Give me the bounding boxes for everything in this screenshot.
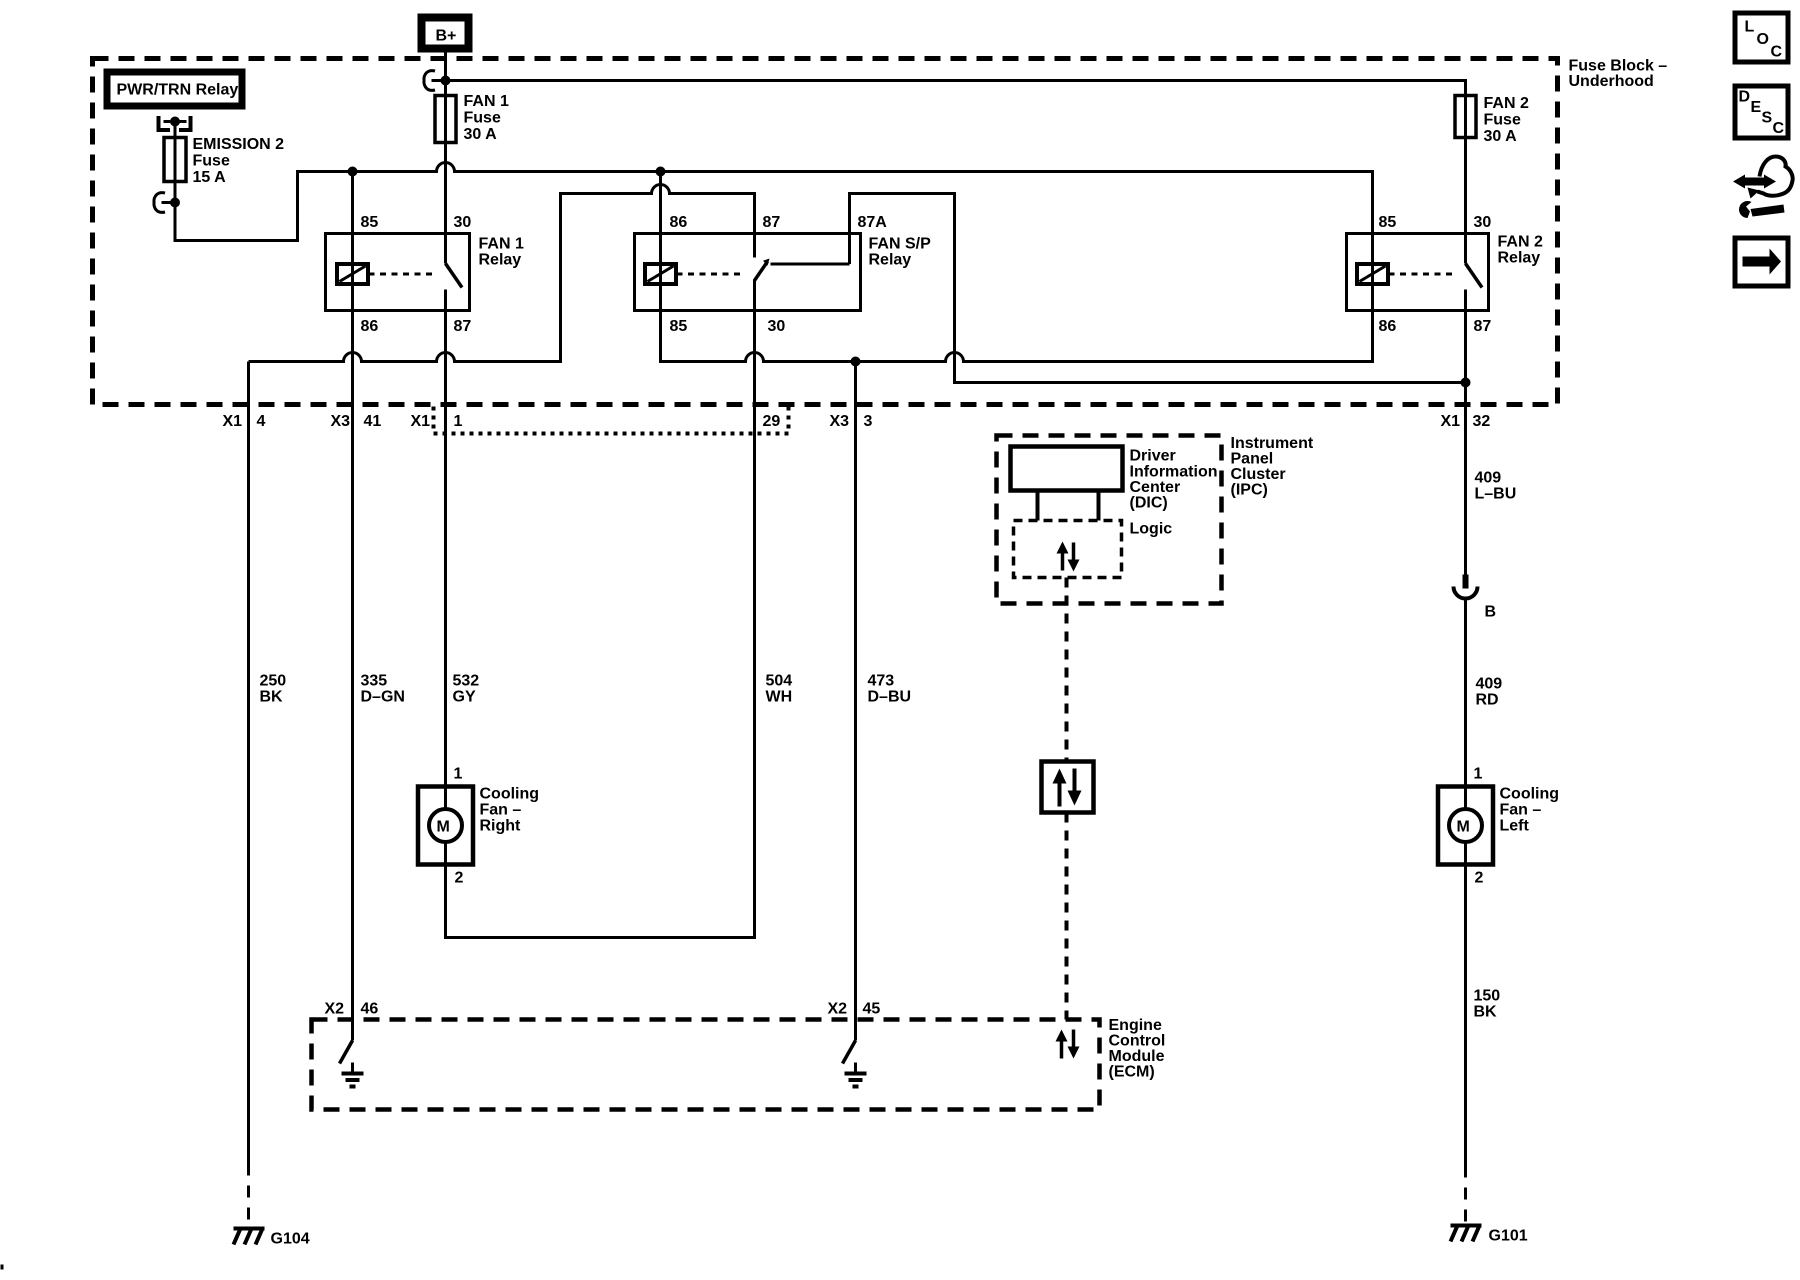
svg-text:1: 1 <box>454 413 463 430</box>
fuse FAN 2 30A <box>1455 95 1529 145</box>
svg-text:PWR/TRN Relay: PWR/TRN Relay <box>117 82 239 99</box>
svg-text:X2: X2 <box>325 1001 345 1018</box>
wire label 250 BK <box>260 673 287 706</box>
svg-text:30 A: 30 A <box>1484 128 1518 145</box>
svg-text:Relay: Relay <box>869 252 912 269</box>
svg-text:X1: X1 <box>1441 413 1461 430</box>
svg-text:M: M <box>437 819 450 836</box>
svg-text:FAN 1: FAN 1 <box>464 93 509 110</box>
svg-text:86: 86 <box>1379 318 1397 335</box>
svg-text:4: 4 <box>257 413 266 430</box>
wire X3-3 to ECM <box>854 362 857 1041</box>
connector labels X1 32 <box>1441 413 1491 430</box>
svg-text:1: 1 <box>1474 766 1483 783</box>
connector labels X2 45 <box>828 1001 881 1018</box>
svg-text:41: 41 <box>364 413 382 430</box>
svg-text:B+: B+ <box>436 28 457 45</box>
node EMISSION splice <box>170 198 180 208</box>
svg-text:C: C <box>1771 44 1783 61</box>
svg-text:504: 504 <box>766 673 793 690</box>
node control bus to FAN1 relay 85 <box>348 167 358 177</box>
ground G101 <box>1451 1226 1528 1245</box>
svg-text:Cooling: Cooling <box>480 786 540 803</box>
svg-text:M: M <box>1457 819 1470 836</box>
svg-text:(ECM): (ECM) <box>1109 1064 1155 1081</box>
svg-text:1: 1 <box>454 766 463 783</box>
svg-text:X3: X3 <box>830 413 850 430</box>
wire dashed lead to G101 <box>1464 1166 1467 1226</box>
battery feed bracket symbol <box>159 116 191 130</box>
svg-text:L–BU: L–BU <box>1475 486 1517 503</box>
svg-text:Fuse: Fuse <box>1484 112 1521 129</box>
svg-text:S: S <box>1762 110 1773 127</box>
svg-text:85: 85 <box>361 214 379 231</box>
svg-text:473: 473 <box>868 673 895 690</box>
connector labels X3 3 <box>830 413 873 430</box>
connector labels X1 1 <box>411 413 463 430</box>
svg-text:G101: G101 <box>1489 1228 1528 1245</box>
wire label 473 D-BU <box>868 673 912 706</box>
wire EMISSION 2 fuse down <box>174 182 177 203</box>
svg-text:WH: WH <box>766 689 793 706</box>
PWR/TRN Relay label box <box>107 72 242 106</box>
svg-text:87A: 87A <box>858 214 888 231</box>
svg-text:Fuse: Fuse <box>464 110 501 127</box>
svg-text:Engine: Engine <box>1109 1017 1162 1034</box>
svg-text:C: C <box>1773 120 1785 137</box>
svg-text:L: L <box>1745 19 1755 36</box>
wire EMISSION control bus <box>175 163 1373 241</box>
node battery feed dot <box>170 117 180 127</box>
ECM serial data arrows <box>1056 1030 1080 1059</box>
wire dashed lead to G104 <box>247 1164 250 1229</box>
page corner mark <box>1 1265 4 1270</box>
relay FAN 1 <box>326 214 524 335</box>
fuse EMISSION 2 15A <box>164 136 284 186</box>
driver information center DIC <box>1011 447 1218 512</box>
svg-text:335: 335 <box>361 673 388 690</box>
B+ terminal <box>422 18 469 49</box>
svg-text:BK: BK <box>260 689 284 706</box>
icon forward arrow <box>1735 238 1788 286</box>
svg-text:Relay: Relay <box>479 252 522 269</box>
svg-text:X2: X2 <box>828 1001 848 1018</box>
node control bus to FAN S/P relay 86 <box>656 167 666 177</box>
wire serial data IPC to connector <box>1065 578 1069 762</box>
svg-text:45: 45 <box>863 1001 881 1018</box>
svg-text:30: 30 <box>454 214 472 231</box>
wire ground line to FAN S/P 87 <box>249 185 755 362</box>
svg-text:GY: GY <box>453 689 476 706</box>
ECM ground switch low speed <box>340 1041 364 1087</box>
svg-text:86: 86 <box>361 318 379 335</box>
svg-text:250: 250 <box>260 673 287 690</box>
svg-text:B: B <box>1485 604 1497 621</box>
wire DIC legs <box>1036 491 1040 521</box>
svg-text:150: 150 <box>1474 988 1501 1005</box>
svg-text:409: 409 <box>1475 470 1502 487</box>
icon DESC <box>1735 86 1788 138</box>
wire label 150 BK <box>1474 988 1501 1021</box>
icon harness routing squiggle <box>1733 157 1793 219</box>
wire drop to FAN S/P relay pin 86 <box>659 172 662 234</box>
svg-text:Left: Left <box>1500 818 1530 835</box>
svg-text:(IPC): (IPC) <box>1231 482 1268 499</box>
svg-text:Module: Module <box>1109 1048 1165 1065</box>
ground G104 <box>234 1229 310 1248</box>
svg-text:(DIC): (DIC) <box>1130 495 1168 512</box>
svg-text:Fuse: Fuse <box>193 153 230 170</box>
connector X1 dotted box <box>434 407 789 434</box>
svg-text:RD: RD <box>1476 692 1499 709</box>
svg-text:FAN 2: FAN 2 <box>1484 95 1529 112</box>
svg-text:Center: Center <box>1130 479 1181 496</box>
svg-text:X1: X1 <box>223 413 243 430</box>
svg-text:O: O <box>1757 31 1769 48</box>
svg-text:Relay: Relay <box>1498 250 1541 267</box>
wire 150 BK left fan to ground <box>1464 865 1467 1166</box>
fuse block underhood dashed box <box>93 58 1668 405</box>
svg-text:Driver: Driver <box>1130 448 1176 465</box>
node B+ bus junction <box>441 76 451 86</box>
wire FAN 2 fuse to relay 30 <box>1464 138 1467 234</box>
svg-text:Right: Right <box>480 818 522 835</box>
wire label 409 RD <box>1476 676 1503 709</box>
wire 532 GY FAN1 87 to right fan <box>444 311 447 787</box>
connector labels X1 4 <box>223 413 266 430</box>
svg-text:Control: Control <box>1109 1033 1166 1050</box>
svg-text:EMISSION 2: EMISSION 2 <box>193 136 285 153</box>
node FAN2 87 junction <box>1461 378 1471 388</box>
svg-text:29: 29 <box>763 413 781 430</box>
connector labels X2 46 <box>325 1001 379 1018</box>
engine control module dashed box <box>312 1017 1166 1110</box>
svg-text:BK: BK <box>1474 1004 1498 1021</box>
svg-text:D–GN: D–GN <box>361 689 405 706</box>
svg-text:46: 46 <box>361 1001 379 1018</box>
svg-text:FAN S/P: FAN S/P <box>869 236 932 253</box>
wire 504 WH right fan to FAN S/P 30 <box>446 311 755 938</box>
svg-text:87: 87 <box>454 318 472 335</box>
svg-text:2: 2 <box>455 870 464 887</box>
wire B+ bus to FAN 2 fuse <box>446 81 1466 96</box>
svg-text:Instrument: Instrument <box>1231 435 1314 452</box>
svg-text:Information: Information <box>1130 464 1218 481</box>
wire label 532 GY <box>453 673 480 706</box>
svg-text:FAN 1: FAN 1 <box>479 236 524 253</box>
svg-text:X1: X1 <box>411 413 431 430</box>
svg-text:Fuse Block –: Fuse Block – <box>1569 58 1668 75</box>
svg-text:15 A: 15 A <box>193 169 227 186</box>
instrument panel cluster dashed box <box>997 435 1314 604</box>
relay FAN 2 <box>1347 214 1543 335</box>
svg-text:87: 87 <box>763 214 781 231</box>
svg-text:30: 30 <box>1474 214 1492 231</box>
icon LOC <box>1735 13 1788 62</box>
connector hook at EMISSION splice <box>154 193 165 213</box>
fuse FAN 1 30A <box>435 93 509 143</box>
wire label 409 L-BU <box>1475 470 1517 503</box>
ECM ground switch high speed <box>843 1041 867 1087</box>
svg-text:2: 2 <box>1475 870 1484 887</box>
svg-text:3: 3 <box>864 413 873 430</box>
wire 87A to FAN 2 87 and X1-32 <box>850 194 1466 383</box>
svg-text:Fan –: Fan – <box>480 802 522 819</box>
wire label 504 WH <box>766 673 793 706</box>
wire 335 D-GN FAN1 86 to ECM <box>351 311 354 1041</box>
wire FAN 1 fuse to relay 30 <box>444 143 447 234</box>
svg-text:Underhood: Underhood <box>1569 73 1654 90</box>
svg-text:87: 87 <box>1474 318 1492 335</box>
svg-text:FAN 2: FAN 2 <box>1498 234 1543 251</box>
wire B+ feed down <box>444 53 447 96</box>
svg-text:86: 86 <box>670 214 688 231</box>
wire label 335 D-GN <box>361 673 405 706</box>
connector hook at B+ bus <box>424 71 435 91</box>
svg-text:30: 30 <box>768 318 786 335</box>
svg-text:85: 85 <box>670 318 688 335</box>
svg-text:Cluster: Cluster <box>1231 466 1286 483</box>
logic dashed box <box>1014 521 1173 578</box>
svg-text:Cooling: Cooling <box>1500 786 1560 803</box>
svg-text:Logic: Logic <box>1130 521 1173 538</box>
svg-text:X3: X3 <box>331 413 351 430</box>
logic serial data arrows <box>1057 542 1080 572</box>
svg-text:E: E <box>1751 99 1762 116</box>
svg-text:G104: G104 <box>271 1231 310 1248</box>
svg-text:Panel: Panel <box>1231 451 1274 468</box>
wire drop to FAN 1 relay pin 85 <box>351 172 354 234</box>
wire feed to EMISSION 2 fuse <box>174 122 177 138</box>
inline connector B <box>1454 575 1497 787</box>
wire stub to connector hook <box>432 79 446 82</box>
node splice to X3-3 <box>851 357 861 367</box>
svg-text:Fan –: Fan – <box>1500 802 1542 819</box>
svg-text:D: D <box>1739 89 1751 106</box>
svg-text:532: 532 <box>453 673 480 690</box>
svg-text:32: 32 <box>1473 413 1491 430</box>
svg-text:409: 409 <box>1476 676 1503 693</box>
svg-text:85: 85 <box>1379 214 1397 231</box>
serial data connector box <box>1042 762 1094 813</box>
wire serial data to ECM <box>1065 813 1069 1020</box>
connector labels X3 41 <box>331 413 382 430</box>
motor cooling fan left <box>1438 766 1559 887</box>
wire FAN S/P 85 to FAN 2 86 <box>661 311 1373 362</box>
svg-text:30 A: 30 A <box>464 126 498 143</box>
relay FAN S/P <box>635 214 932 335</box>
wire stub to connector hook <box>162 201 176 204</box>
wire 409 L-BU FAN2 87 to left fan <box>1464 311 1467 577</box>
svg-text:D–BU: D–BU <box>868 689 912 706</box>
motor cooling fan right <box>418 766 539 887</box>
wire ground drop to X1-4 <box>247 362 250 1164</box>
